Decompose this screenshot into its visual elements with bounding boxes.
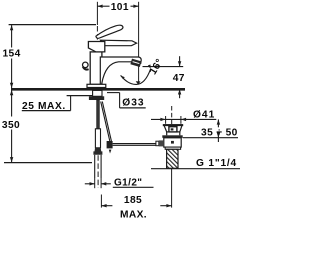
svg-text:47: 47: [173, 73, 185, 84]
svg-text:185: 185: [124, 195, 142, 206]
svg-text:35 ÷ 50: 35 ÷ 50: [201, 127, 238, 138]
svg-text:350: 350: [2, 120, 20, 131]
svg-text:101: 101: [111, 2, 129, 13]
svg-text:Ø41: Ø41: [193, 109, 215, 120]
svg-text:25 MAX.: 25 MAX.: [22, 101, 66, 112]
svg-text:G 1"1/4: G 1"1/4: [196, 158, 237, 169]
svg-text:Ø33: Ø33: [122, 98, 144, 109]
svg-text:154: 154: [2, 48, 20, 59]
svg-text:MAX.: MAX.: [120, 210, 147, 221]
